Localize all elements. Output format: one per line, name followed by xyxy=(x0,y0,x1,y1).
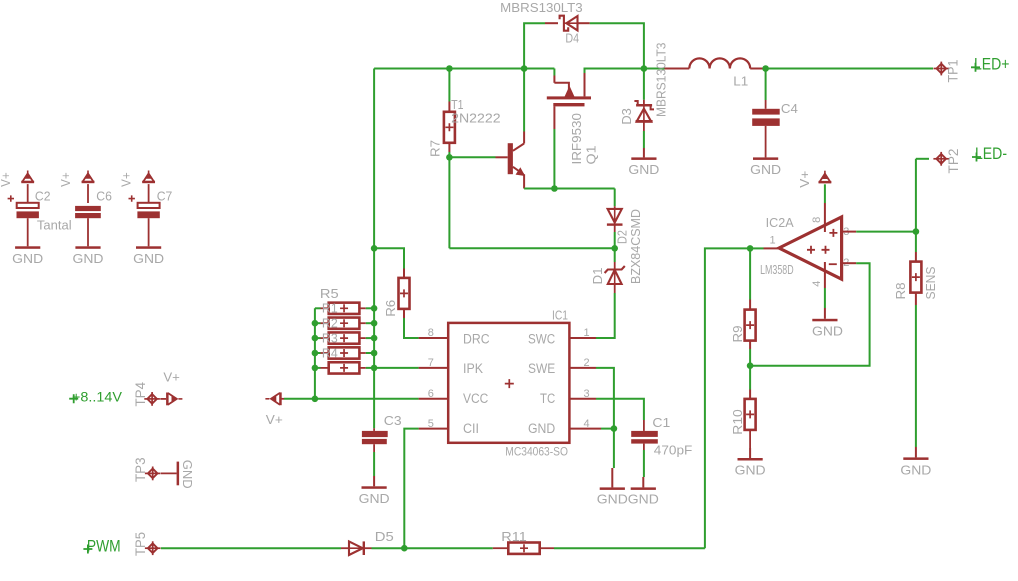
junction sense node xyxy=(913,228,920,235)
svg-text:D2: D2 xyxy=(615,230,629,244)
resistor R7 xyxy=(444,112,455,143)
wire rail to D3 xyxy=(643,69,645,100)
testpoint TP3 xyxy=(145,472,161,474)
net label LED+ xyxy=(971,63,980,72)
svg-text:GND: GND xyxy=(180,460,194,489)
svg-text:TP3: TP3 xyxy=(133,458,148,483)
wire V+ to op-amp pin 8 xyxy=(824,184,826,203)
svg-text:SWE: SWE xyxy=(528,361,555,376)
transistor Q1 IRF9530 xyxy=(554,83,569,97)
wire C7 to ground xyxy=(148,218,150,246)
wire R9 to divider node xyxy=(749,341,751,349)
svg-text:IC2A: IC2A xyxy=(766,216,795,230)
diode D4 MBRS130LT3 xyxy=(560,16,569,31)
wire IC1 pin 3 to C1 xyxy=(569,398,596,400)
testpoint TP5 xyxy=(145,547,161,549)
svg-text:GND: GND xyxy=(359,492,390,506)
svg-text:LM358D: LM358D xyxy=(760,263,794,277)
wire C4 branch xyxy=(765,69,767,101)
svg-text:TP4: TP4 xyxy=(133,382,148,407)
svg-text:V+: V+ xyxy=(59,172,73,187)
wire R11 riser to output node xyxy=(705,248,750,548)
wire R6 to IC1 pin 8 xyxy=(403,309,405,318)
svg-text:4: 4 xyxy=(811,281,823,287)
testpoint TP2 xyxy=(933,158,949,160)
wire C6 to ground xyxy=(87,218,89,246)
junction R5 left rail xyxy=(312,350,319,357)
svg-text:GND: GND xyxy=(750,163,781,177)
svg-text:LED+: LED+ xyxy=(974,55,1010,74)
wire output node to op-amp pin 1 xyxy=(750,247,763,249)
wire D1 to IC1 pin 1 xyxy=(614,284,616,293)
svg-text:SENS: SENS xyxy=(923,266,938,299)
svg-text:GND: GND xyxy=(900,463,931,477)
svg-text:GND: GND xyxy=(735,463,766,477)
wire IC1 pin 4 to ground node xyxy=(569,428,601,430)
wire op-amp pin 2 feedback xyxy=(842,262,857,264)
svg-text:R11: R11 xyxy=(501,530,527,544)
capacitor C6 xyxy=(75,206,101,211)
diode D3 MBRS130LT3 xyxy=(636,104,652,107)
svg-text:R7: R7 xyxy=(429,140,443,157)
resistor array element row 3 R3 xyxy=(315,337,321,339)
wire C4 to ground xyxy=(765,126,767,157)
wire V+ to C6 xyxy=(87,184,89,203)
wire TP2 to sense node xyxy=(916,158,929,160)
svg-text:V+: V+ xyxy=(266,413,283,427)
resistor R10 xyxy=(745,399,756,430)
svg-text:R1: R1 xyxy=(322,302,338,316)
wire V+ to C7 xyxy=(148,184,150,203)
wire D4 left leg xyxy=(524,23,545,68)
svg-text:MBRS130LT3: MBRS130LT3 xyxy=(500,1,583,15)
svg-text:1: 1 xyxy=(770,235,776,247)
wire T1 emitter to gate node xyxy=(523,174,525,188)
wire base node to T1 xyxy=(449,156,495,158)
junction T1 base node xyxy=(446,154,453,161)
wire output node to R9 xyxy=(749,248,751,299)
junction VCC left rail xyxy=(312,396,319,403)
wire D2 to junction xyxy=(614,225,616,232)
svg-text:IC1: IC1 xyxy=(552,308,568,322)
svg-text:2N2222: 2N2222 xyxy=(451,112,501,126)
wire R7 node down to zener row xyxy=(448,157,450,248)
wire D5 to pin5 node xyxy=(364,547,372,549)
diode D5 xyxy=(349,541,363,555)
svg-text:6: 6 xyxy=(428,388,434,400)
power V+ above op-amp xyxy=(824,171,826,175)
wire C2 to ground xyxy=(27,218,29,246)
wire C1 to ground xyxy=(643,444,645,450)
svg-text:8: 8 xyxy=(428,327,434,339)
svg-text:R5: R5 xyxy=(320,287,339,301)
svg-text:GND: GND xyxy=(597,493,628,507)
svg-text:R2: R2 xyxy=(322,317,338,331)
svg-text:C2: C2 xyxy=(35,190,51,204)
ground IC1 pin 4 xyxy=(611,468,613,487)
wire rail to R7 xyxy=(448,69,450,102)
svg-text:Q1: Q1 xyxy=(585,145,599,164)
ground at TP3 rotated xyxy=(177,462,180,486)
svg-text:V+: V+ xyxy=(798,171,812,188)
junction C4 top xyxy=(762,65,769,72)
junction rail to R6 branch xyxy=(371,245,378,252)
power V+ symbol above C7 xyxy=(148,171,150,175)
svg-text:R4: R4 xyxy=(322,346,338,360)
wire sense node to R8 xyxy=(915,232,917,252)
svg-text:MBRS130LT3: MBRS130LT3 xyxy=(654,42,668,117)
svg-text:R3: R3 xyxy=(322,331,338,345)
junction R5 right rail xyxy=(371,305,378,312)
svg-text:GND: GND xyxy=(628,163,659,177)
resistor R9 xyxy=(745,310,756,341)
junction R7 top xyxy=(446,65,453,72)
wire D3 to ground xyxy=(643,122,645,131)
svg-text:SWC: SWC xyxy=(528,331,555,346)
junction T1 collector rail xyxy=(521,65,528,72)
wire L1 to TP1 xyxy=(763,68,933,70)
wire Q1 source xyxy=(553,69,555,76)
resistor array element row 2 R2 xyxy=(315,322,321,324)
capacitor C7 xyxy=(138,203,160,208)
svg-text:C7: C7 xyxy=(157,190,173,204)
wire gate node down to D2 xyxy=(614,189,616,207)
wire TP5 to D5 xyxy=(161,547,341,549)
svg-text:CII: CII xyxy=(463,421,479,436)
wire IC1 pin 2 to ground node xyxy=(569,367,596,369)
svg-text:R6: R6 xyxy=(384,300,398,317)
svg-text:8: 8 xyxy=(811,217,823,223)
svg-text:GND: GND xyxy=(528,421,555,436)
wire ground node down xyxy=(613,429,615,468)
svg-text:GND: GND xyxy=(628,493,659,507)
resistor array element row 5 R5 xyxy=(315,367,321,369)
svg-text:D5: D5 xyxy=(375,530,394,544)
svg-text:TP1: TP1 xyxy=(946,60,961,83)
svg-text:V+: V+ xyxy=(0,172,13,187)
junction R5 right rail xyxy=(371,350,378,357)
svg-text:TP2: TP2 xyxy=(946,149,961,174)
svg-text:MC34063-SO: MC34063-SO xyxy=(505,446,568,458)
junction R5 right rail xyxy=(371,365,378,372)
junction pin5 node xyxy=(401,545,408,552)
svg-text:GND: GND xyxy=(73,252,104,266)
inductor L1 xyxy=(665,68,690,70)
capacitor C3 xyxy=(362,431,388,437)
junction R5 right rail xyxy=(371,320,378,327)
svg-text:V+: V+ xyxy=(163,370,180,384)
net label +8..14V xyxy=(69,394,78,403)
wire R8 to ground xyxy=(915,293,917,305)
ground below C1 xyxy=(642,477,644,487)
resistor array element row 1 R1 xyxy=(315,307,321,309)
op-amp IC2A LM358D xyxy=(779,217,842,279)
wire op-amp pin 3 xyxy=(842,231,857,233)
svg-text:L1: L1 xyxy=(733,75,748,89)
svg-text:C6: C6 xyxy=(96,190,112,204)
wire D4 right leg xyxy=(578,22,590,24)
wire TP3 to ground xyxy=(161,472,177,474)
wire V+ rail down xyxy=(373,69,375,368)
svg-text:D1: D1 xyxy=(591,267,605,284)
junction divider node xyxy=(747,362,754,369)
svg-text:C3: C3 xyxy=(384,414,402,428)
svg-text:R10: R10 xyxy=(731,409,745,435)
wire R11 to op-amp node riser xyxy=(540,547,554,549)
svg-text:7: 7 xyxy=(428,357,434,369)
svg-text:V+: V+ xyxy=(120,172,134,187)
IC U1 MC34063-SO body xyxy=(448,323,569,443)
wire Q1 drain up xyxy=(584,73,586,96)
junction R5 left rail xyxy=(312,335,319,342)
svg-text:Tantal: Tantal xyxy=(37,219,72,233)
wire C3 to ground xyxy=(373,444,375,452)
svg-text:GND: GND xyxy=(812,324,843,338)
svg-text:T1: T1 xyxy=(451,98,463,112)
ground below C2 xyxy=(15,246,40,249)
svg-text:C4: C4 xyxy=(781,102,798,116)
svg-text:D3: D3 xyxy=(620,108,634,124)
power V+ symbol above C6 xyxy=(87,171,89,175)
testpoint TP1 xyxy=(934,68,950,70)
wire main V+ rail top xyxy=(374,68,554,70)
svg-text:IRF9530: IRF9530 xyxy=(570,113,584,165)
ground below C7 xyxy=(136,246,161,249)
svg-text:GND: GND xyxy=(12,252,43,266)
junction R5 left rail xyxy=(312,320,319,327)
svg-text:BZX84CSMD: BZX84CSMD xyxy=(629,209,643,284)
power V+ symbol above C2 xyxy=(27,171,29,175)
svg-text:R8: R8 xyxy=(893,283,908,300)
svg-text:DRC: DRC xyxy=(463,331,490,346)
wire op-amp pin 4 to ground xyxy=(824,262,826,288)
svg-text:TC: TC xyxy=(540,391,555,406)
junction zener node xyxy=(611,245,618,252)
ground below R8 xyxy=(915,447,917,457)
wire junction to D1 xyxy=(614,248,616,262)
wire branch to R6 xyxy=(374,248,404,268)
wire rail to C3 xyxy=(373,368,375,428)
net label PWM xyxy=(83,545,92,554)
svg-text:GND: GND xyxy=(133,252,164,266)
junction IC1 ground node xyxy=(611,425,618,432)
wire V+ to C2 xyxy=(27,184,29,203)
wire Q1 gate down xyxy=(553,106,555,129)
wire T1 collector xyxy=(523,69,525,132)
wire R5 left rail xyxy=(314,308,316,399)
resistor R6 xyxy=(399,278,410,309)
svg-text:D4: D4 xyxy=(565,31,579,45)
net label LED- xyxy=(972,153,981,162)
ground below D3 xyxy=(643,148,645,157)
svg-text:+8..14V: +8..14V xyxy=(72,389,122,404)
wire IC1 pin 5 to PWM row xyxy=(419,428,449,430)
junction R5 left rail xyxy=(312,365,319,372)
svg-text:R9: R9 xyxy=(731,325,745,342)
svg-text:470pF: 470pF xyxy=(654,444,693,458)
svg-text:1: 1 xyxy=(584,327,590,339)
ground below C6 xyxy=(75,246,100,249)
zener diode D1 xyxy=(605,266,625,273)
wire R10 to ground xyxy=(749,430,751,448)
capacitor C2 xyxy=(17,203,39,208)
ground below C4 xyxy=(753,157,778,160)
resistor R8 SENS xyxy=(910,262,921,293)
svg-text:TP5: TP5 xyxy=(133,532,148,556)
capacitor C1 470pF xyxy=(631,431,658,437)
svg-text:C1: C1 xyxy=(652,416,670,430)
ground below C3 xyxy=(373,476,375,486)
junction R5 right rail xyxy=(371,335,378,342)
capacitor C4 xyxy=(752,109,780,115)
transistor T1 2N2222 xyxy=(508,143,513,174)
wire R7 to T1 base node xyxy=(448,143,450,152)
junction D3 top xyxy=(641,65,648,72)
wire pin5 node to R11 xyxy=(404,547,493,549)
junction op-amp output node xyxy=(747,245,754,252)
resistor R11 xyxy=(508,543,539,554)
ground below R10 xyxy=(749,448,751,458)
svg-text:PWM: PWM xyxy=(87,536,121,555)
diode D2 BZX84CSMD xyxy=(608,209,622,223)
svg-text:IPK: IPK xyxy=(463,361,483,376)
testpoint TP4 xyxy=(144,398,160,400)
wire V+ to IC1 pin 6 xyxy=(280,398,284,400)
power V+ arrow at VCC xyxy=(265,398,269,400)
resistor array element row 4 R4 xyxy=(315,352,321,354)
junction Q1 gate node xyxy=(551,185,558,192)
svg-text:VCC: VCC xyxy=(463,391,489,406)
ground op-amp pin 4 xyxy=(824,308,826,319)
wire row5 to IC1 pin 7 xyxy=(374,367,419,369)
svg-text:LED-: LED- xyxy=(975,144,1007,163)
wire divider node to R10 xyxy=(749,366,751,390)
